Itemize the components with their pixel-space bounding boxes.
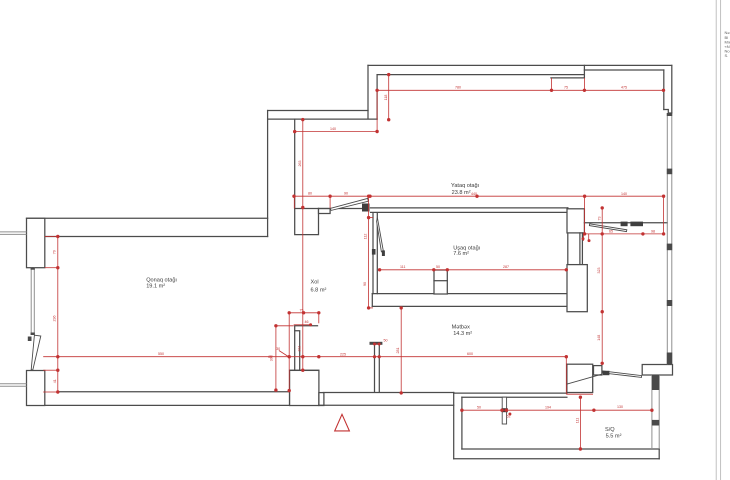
kitchen east wall bbox=[566, 364, 568, 393]
svg-text:46: 46 bbox=[305, 320, 309, 324]
pier bbox=[667, 113, 672, 116]
wall: living room south band bbox=[58, 391, 289, 393]
S/Q north thin wall bbox=[454, 392, 567, 394]
pier bbox=[667, 244, 672, 251]
children room south band bbox=[372, 293, 568, 295]
hall pier cap bbox=[370, 342, 383, 345]
svg-text:225: 225 bbox=[340, 352, 346, 356]
door leaf: hall to bedroom bbox=[330, 198, 368, 210]
svg-text:112: 112 bbox=[364, 234, 368, 240]
svg-text:194: 194 bbox=[545, 406, 551, 410]
svg-text:75: 75 bbox=[564, 86, 568, 90]
wall: hall pier block bbox=[295, 209, 319, 235]
svg-text:73: 73 bbox=[597, 217, 601, 221]
door leaf 2: kitchen swing bbox=[567, 374, 603, 384]
pillar NW living room bbox=[27, 218, 45, 267]
dim: top chain y90 bbox=[377, 89, 663, 91]
door leaf: kitchen to S/Q (vertical) bbox=[502, 397, 506, 424]
dim: 140 line y131 bbox=[295, 131, 377, 133]
dim: sliding door chain y233.9 bbox=[585, 233, 664, 235]
svg-text:98: 98 bbox=[651, 229, 655, 233]
svg-text:140: 140 bbox=[621, 192, 627, 196]
dim: 263 vertical bbox=[302, 120, 304, 371]
north triangle symbol bbox=[335, 414, 350, 431]
wall: living room north band inner bbox=[45, 236, 268, 238]
svg-text:19.1 m²: 19.1 m² bbox=[146, 283, 165, 289]
wall: hall pier top at bedroom door bbox=[295, 208, 319, 210]
S/Q east piers bbox=[652, 375, 659, 390]
wall: bedroom north outer bbox=[368, 64, 672, 66]
svg-text:Mətbəx: Mətbəx bbox=[452, 325, 471, 331]
dim: y196 chain bbox=[294, 195, 664, 197]
red dim texts bbox=[53, 86, 655, 424]
column in children room bbox=[434, 270, 447, 294]
pier bbox=[667, 300, 672, 306]
dim: hall-kitchen pier ticks bbox=[375, 343, 380, 345]
stub bottom left bbox=[0, 383, 27, 385]
svg-text:S.: S. bbox=[725, 53, 729, 58]
svg-text:550: 550 bbox=[158, 352, 164, 356]
dim: door connectors bbox=[293, 196, 295, 208]
svg-text:140: 140 bbox=[330, 127, 336, 131]
wall: divider bottom segments (door gap) bbox=[371, 211, 568, 213]
wall: beam above bedroom window bbox=[551, 77, 585, 79]
wall piers (dark fills) on east window wall bbox=[28, 113, 672, 426]
svg-text:263: 263 bbox=[298, 161, 302, 167]
corridor south block bbox=[567, 364, 593, 392]
svg-text:118: 118 bbox=[384, 95, 388, 101]
kitchen south band bbox=[323, 392, 453, 394]
door leaf: children room bbox=[377, 218, 384, 252]
hinge living room door bbox=[28, 337, 32, 342]
hinge blocks bbox=[362, 204, 370, 212]
hall pier between hall and kitchen: stems bbox=[374, 345, 376, 392]
pier bbox=[667, 353, 672, 365]
svg-text:111: 111 bbox=[400, 265, 405, 269]
wall: bedroom east outer bbox=[671, 65, 673, 113]
wall: bedroom east inner bbox=[663, 70, 665, 110]
dim: closet rect bbox=[289, 312, 319, 314]
wall: NW corridor band top bbox=[268, 110, 368, 112]
svg-text:287: 287 bbox=[503, 265, 509, 269]
svg-text:50: 50 bbox=[477, 406, 481, 410]
children room west wall double bbox=[372, 213, 374, 294]
east block lower (wardrobe) bbox=[567, 265, 587, 312]
dim: wardrobe tiny chain bbox=[582, 234, 584, 241]
svg-text:5.5 m²: 5.5 m² bbox=[606, 434, 622, 440]
svg-text:130: 130 bbox=[617, 405, 623, 409]
dim: hall west vertical x275 bbox=[275, 326, 277, 390]
wall: bedroom north inner left bbox=[377, 74, 584, 76]
door leaf: corridor to S/Q bbox=[603, 371, 642, 378]
svg-text:50: 50 bbox=[384, 339, 388, 343]
svg-text:41: 41 bbox=[53, 379, 57, 383]
wall: bedroom north inner right bbox=[584, 69, 663, 71]
svg-text:440: 440 bbox=[471, 192, 477, 196]
svg-text:780: 780 bbox=[455, 86, 461, 90]
dim: children west vertical bbox=[368, 196, 370, 308]
S/Q south band bbox=[462, 448, 659, 450]
east block upper (wardrobe) bbox=[567, 209, 584, 233]
wall: bedroom west inner bbox=[376, 75, 378, 120]
svg-text:Yataq otağı: Yataq otağı bbox=[451, 183, 480, 189]
dim: main horizontal y356.7 bbox=[43, 356, 566, 358]
svg-text:14.3 m²: 14.3 m² bbox=[453, 331, 472, 337]
S/Q NE block bbox=[642, 365, 672, 376]
window: east wall double line bbox=[666, 113, 668, 364]
door leaf: living room balcony bbox=[31, 335, 41, 370]
svg-text:111: 111 bbox=[575, 418, 579, 423]
entrance step nub bbox=[319, 393, 324, 406]
wall: bedroom west outer bbox=[367, 65, 369, 118]
wall: east notch bbox=[664, 110, 672, 114]
notes text block top right (clipped at edge) bbox=[725, 30, 730, 58]
dim: S/Q top chain y410 bbox=[462, 409, 652, 411]
dim: x566 vertical bbox=[565, 357, 567, 395]
svg-text:90: 90 bbox=[363, 282, 367, 286]
wall: corridor east bbox=[294, 119, 296, 208]
window caps living room bbox=[31, 268, 35, 270]
svg-text:50: 50 bbox=[436, 265, 440, 269]
east block double link bbox=[579, 233, 581, 265]
red dots bbox=[56, 73, 665, 451]
dim: left vertical chain x57.8 bbox=[57, 237, 59, 393]
svg-text:281: 281 bbox=[396, 348, 400, 354]
children room east wall bbox=[567, 208, 569, 307]
svg-text:7.6 m²: 7.6 m² bbox=[453, 251, 469, 257]
svg-text:65: 65 bbox=[609, 229, 613, 233]
svg-text:302: 302 bbox=[270, 355, 274, 361]
stub top left bbox=[0, 231, 27, 233]
dim: bedroom right connector bbox=[663, 196, 665, 234]
dim: connector x584.5 bbox=[584, 196, 586, 234]
svg-text:52: 52 bbox=[507, 415, 511, 419]
door leaf: bedroom sliding bbox=[589, 224, 626, 232]
svg-text:S/Q: S/Q bbox=[605, 427, 615, 433]
window: living room west bbox=[30, 268, 32, 335]
svg-text:6.8 m²: 6.8 m² bbox=[311, 288, 327, 294]
entrance block hall south bbox=[290, 370, 319, 405]
bedroom sliding door track bbox=[584, 222, 667, 224]
dim: children width chain y266 bbox=[380, 269, 567, 271]
S/Q door pier bbox=[594, 366, 602, 375]
dim: east corridor vertical bbox=[601, 208, 603, 363]
wall: NW corridor band bottom bbox=[268, 118, 378, 120]
wall: bedroom door header bbox=[319, 208, 369, 210]
svg-text:475: 475 bbox=[621, 86, 627, 90]
svg-text:236: 236 bbox=[53, 316, 57, 322]
svg-text:70: 70 bbox=[53, 250, 57, 254]
svg-text:80: 80 bbox=[308, 192, 312, 196]
wall: top step at x584 bbox=[583, 65, 585, 78]
wall: living room north band outer bbox=[27, 217, 268, 219]
page border double line right bbox=[716, 0, 720, 480]
svg-text:600: 600 bbox=[467, 352, 473, 356]
svg-text:23.8 m²: 23.8 m² bbox=[452, 190, 471, 196]
svg-text:Xol: Xol bbox=[311, 279, 319, 285]
closet polyline in hall bbox=[295, 326, 318, 371]
svg-text:90: 90 bbox=[344, 192, 348, 196]
S/Q west wall bbox=[453, 393, 455, 459]
S/Q east window double bbox=[651, 375, 653, 449]
pillar SW living room bbox=[27, 371, 45, 406]
wall: door jamb ledge bbox=[319, 209, 331, 214]
svg-text:102: 102 bbox=[298, 346, 302, 352]
svg-text:148: 148 bbox=[597, 335, 601, 341]
wall: corridor west bbox=[267, 111, 269, 237]
svg-text:30: 30 bbox=[276, 347, 280, 351]
dim: kitchen vertical x401 bbox=[400, 308, 402, 393]
wall: bedroom/children divider top bbox=[371, 207, 568, 209]
svg-text:75: 75 bbox=[300, 309, 304, 313]
svg-text:323: 323 bbox=[597, 268, 601, 274]
dim: S/Q vertical x580 bbox=[579, 397, 581, 449]
